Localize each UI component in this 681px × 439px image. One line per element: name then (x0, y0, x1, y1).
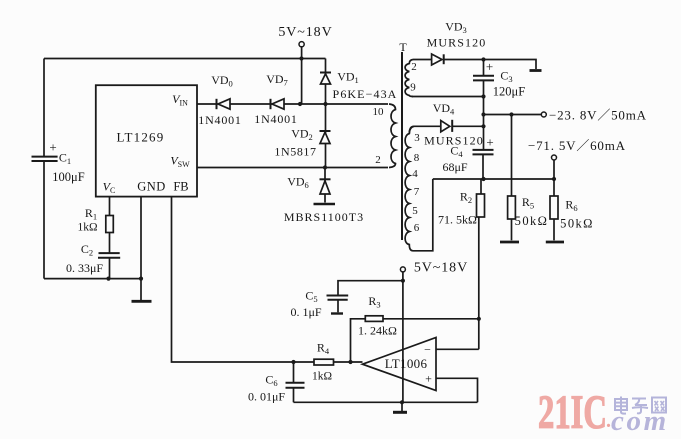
wire GND pin lead (140, 197, 142, 300)
resistor R5 (500, 115, 519, 243)
wire Vsw line (197, 167, 388, 169)
wire R4 to op-amp (334, 361, 363, 363)
svg-text:R3: R3 (368, 294, 380, 310)
svg-text:−23. 8V／50mA: −23. 8V／50mA (549, 108, 647, 123)
svg-text:R5: R5 (522, 195, 534, 211)
svg-text:LT1269: LT1269 (117, 130, 165, 145)
svg-text:R1: R1 (85, 206, 97, 222)
wire R3 right lead (383, 318, 479, 320)
svg-text:1kΩ: 1kΩ (77, 222, 97, 234)
diode VD6 MBRS1100T3 (314, 168, 336, 205)
resistor R6 (546, 179, 564, 242)
svg-text:R6: R6 (565, 198, 577, 214)
diode VD3 MURS120 (432, 54, 444, 65)
wire VD1 VD2 vertical (325, 59, 327, 168)
capacitor C5 (327, 296, 349, 314)
ground below op-amp (393, 402, 407, 412)
diode VD4 MURS120 (409, 120, 483, 134)
svg-text:+: + (49, 140, 56, 155)
svg-text:+: + (486, 135, 493, 150)
svg-text:R4: R4 (317, 341, 330, 357)
svg-text:−71. 5V／60mA: −71. 5V／60mA (528, 138, 626, 153)
wire R3 left lead down to R4 node (351, 319, 366, 362)
wire bottom rail (294, 401, 478, 403)
svg-text:0. 1μF: 0. 1μF (290, 305, 321, 319)
svg-text:10: 10 (373, 106, 385, 118)
svg-text:2: 2 (375, 154, 381, 166)
svg-text:C6: C6 (265, 373, 277, 389)
capacitor C3 (473, 60, 494, 150)
svg-text:C3: C3 (500, 69, 512, 85)
svg-text:3: 3 (414, 132, 420, 144)
diode VD2 1N5817 (320, 131, 331, 144)
svg-text:GND: GND (137, 180, 166, 194)
svg-text:7: 7 (414, 186, 420, 198)
terminal -23.8V (541, 112, 546, 117)
wire left vertical to C1 (43, 59, 45, 157)
svg-text:VD1: VD1 (337, 70, 359, 86)
capacitor C1 (32, 157, 58, 279)
diode VD7 1N4001 (271, 99, 285, 109)
resistor R2 (477, 179, 485, 217)
wire VD3 to C3 node (445, 59, 484, 61)
diode VD0 1N4001 (217, 99, 231, 109)
wire op-amp minus input loop / R2 bottom lead (436, 217, 479, 349)
svg-text:50kΩ: 50kΩ (560, 217, 594, 231)
svg-text:C2: C2 (81, 242, 93, 258)
svg-text:+: + (486, 59, 493, 74)
wire op-amp plus input loop (436, 378, 478, 402)
svg-text:1N4001: 1N4001 (198, 113, 241, 127)
svg-text:100μF: 100μF (52, 170, 84, 184)
wire pin6 lead up to -71.5V rail (413, 179, 433, 251)
wire terminal to Vin line (301, 47, 303, 104)
svg-text:50kΩ: 50kΩ (515, 214, 549, 228)
svg-text:VD6: VD6 (287, 175, 309, 191)
op-amp U2 LT1006 (363, 338, 437, 391)
svg-text:T: T (399, 40, 407, 54)
svg-text:LT1006: LT1006 (385, 356, 428, 371)
svg-text:71. 5kΩ: 71. 5kΩ (438, 213, 477, 227)
svg-text:1kΩ: 1kΩ (312, 371, 332, 383)
svg-text:0. 33μF: 0. 33μF (66, 261, 103, 275)
svg-text:21IC: 21IC (538, 386, 607, 439)
svg-text:68μF: 68μF (442, 160, 467, 174)
wire R1 to C2 (109, 233, 111, 253)
wire pin9 lead (412, 96, 484, 98)
svg-text:1N4001: 1N4001 (254, 112, 297, 126)
svg-text:1N5817: 1N5817 (274, 145, 316, 159)
svg-text:2: 2 (411, 61, 417, 73)
terminal 5V-18V lower (400, 267, 405, 272)
svg-text:MURS120: MURS120 (427, 36, 487, 50)
svg-text:VD4: VD4 (433, 101, 455, 117)
wire Vin line (197, 103, 388, 105)
ground top right (484, 60, 542, 71)
svg-text:5: 5 (412, 205, 418, 217)
svg-text:6: 6 (414, 222, 420, 234)
svg-text:FB: FB (173, 180, 188, 194)
svg-text:VD0: VD0 (211, 73, 233, 89)
svg-text:8: 8 (414, 152, 420, 164)
watermark chinese 电子网 (615, 397, 666, 414)
svg-text:VD7: VD7 (266, 72, 288, 88)
wire Vc pin lead (109, 197, 111, 216)
svg-text:1. 24kΩ: 1. 24kΩ (358, 324, 397, 338)
resistor R1 (106, 216, 114, 233)
resistor R4 (314, 359, 334, 365)
transformer primary winding pins 10-2 (389, 104, 396, 168)
svg-text:MBRS1100T3: MBRS1100T3 (284, 210, 364, 224)
svg-text:120μF: 120μF (493, 85, 525, 99)
transformer secondary winding pins 3-8-4-7-5-6 (405, 126, 414, 251)
wire -71.5V rail (433, 178, 554, 180)
svg-text:+: + (425, 372, 432, 386)
capacitor C6 (286, 362, 305, 402)
capacitor C4 (473, 150, 494, 179)
wire -23.8V rail (484, 114, 542, 116)
transformer T core (401, 52, 403, 240)
IC U1 LT1269 box (96, 85, 197, 196)
wire FB pin down and across (172, 197, 315, 362)
svg-text:com: com (611, 405, 669, 437)
svg-text:VD2: VD2 (291, 127, 313, 143)
ground below GND pin (132, 300, 152, 303)
wire bottom-left rail (44, 278, 141, 280)
wire secondary top to VD3 (413, 59, 431, 61)
svg-text:5V~18V: 5V~18V (414, 261, 468, 276)
diode VD1 P6KE-43A (320, 73, 331, 85)
capacitor C2 (98, 253, 120, 279)
svg-text:5V~18V: 5V~18V (278, 25, 332, 40)
svg-text:P6KE−43A: P6KE−43A (333, 87, 398, 101)
svg-text:−: − (424, 343, 431, 357)
wire top rail (44, 58, 326, 60)
svg-text:4: 4 (412, 168, 418, 180)
svg-text:C5: C5 (305, 289, 317, 305)
svg-text:C1: C1 (59, 151, 71, 167)
resistor R3 (365, 316, 383, 322)
svg-text:0. 01μF: 0. 01μF (248, 390, 285, 404)
terminal 5V-18V upper (299, 42, 304, 47)
wire supply vertical to op-amp (402, 272, 404, 402)
terminal -71.5V (552, 155, 557, 160)
wire terminal to -71.5V rail (553, 160, 555, 179)
transformer secondary winding pins 2-9 (405, 60, 413, 97)
svg-text:R2: R2 (460, 190, 472, 206)
svg-text:VD3: VD3 (445, 20, 467, 36)
svg-text:9: 9 (410, 82, 416, 94)
wire C5 branch (338, 281, 403, 295)
